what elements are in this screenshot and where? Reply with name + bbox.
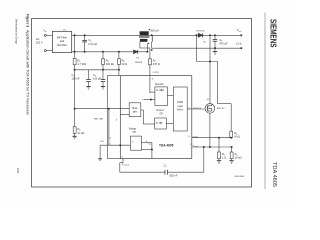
transformer primary winding 360uH — [140, 31, 149, 35]
resistor R1 startup 1.7M — [73, 35, 86, 66]
node after diode — [209, 35, 210, 36]
svg-text:plier: plier — [133, 110, 138, 113]
svg-text:Driver: Driver — [177, 108, 183, 111]
wire gate from pin5 — [187, 107, 205, 109]
wire feedback winding left stub — [140, 42, 150, 48]
AC 220V source label — [36, 37, 43, 45]
transformer feedback winding — [140, 39, 148, 42]
ground C3 — [86, 87, 90, 90]
svg-text:Application Circuit with TDA 4: Application Circuit with TDA 4605 for TV… — [25, 30, 29, 115]
wire diode to Vout — [203, 34, 241, 36]
resistor R4 270 to pin8 — [149, 48, 160, 93]
svg-text:Current: Current — [156, 109, 164, 112]
capacitor C9 470u — [213, 35, 228, 51]
transistor Q1 SIPMOS — [193, 99, 225, 113]
wire detector to pwm — [167, 95, 173, 97]
pwm logic driver block — [173, 87, 187, 131]
secondary winding coil — [151, 35, 153, 51]
wire feedback up to sense — [203, 147, 205, 172]
resistor R7 — [218, 152, 227, 161]
svg-text:100 µF: 100 µF — [93, 77, 102, 81]
svg-text:D: D — [156, 89, 158, 92]
svg-text:10 kΩ: 10 kΩ — [235, 156, 242, 160]
wire multiplier to current op — [141, 110, 155, 124]
svg-text:1.7 MΩ: 1.7 MΩ — [78, 62, 86, 66]
node rail B R6 — [118, 51, 119, 52]
svg-text:OP: OP — [133, 132, 137, 134]
svg-text:270 Ω: 270 Ω — [153, 62, 160, 66]
svg-text:AC: AC — [36, 37, 40, 41]
node Vcc R6 — [118, 69, 119, 70]
wire rail A secondary to output — [149, 34, 198, 36]
node rail B C5 — [84, 51, 85, 52]
output terminal sense — [236, 43, 242, 50]
node snubber branch — [196, 35, 197, 36]
right margin rule — [264, 13, 266, 190]
svg-text:UES 04605: UES 04605 — [234, 176, 244, 178]
wire rail A plus — [72, 34, 140, 36]
ground C9 — [213, 52, 217, 55]
wire snubber right leg — [218, 62, 232, 132]
svg-text:Vcontrol: Vcontrol — [122, 164, 130, 167]
node startup pin3 — [74, 108, 75, 109]
wire R7 stub — [218, 138, 220, 152]
svg-text:10 Ω: 10 Ω — [122, 62, 128, 66]
svg-text:9.97: 9.97 — [16, 168, 20, 174]
diode BYW52 — [197, 30, 207, 43]
svg-text:BYW 52: BYW 52 — [197, 30, 206, 32]
svg-text:TDA 4605: TDA 4605 — [159, 143, 174, 147]
feedback phase dot — [148, 43, 149, 44]
ground R9 — [229, 161, 233, 164]
resistor R6 10 — [118, 52, 128, 76]
svg-text:R8/1.7MΩ: R8/1.7MΩ — [94, 118, 104, 120]
ground R2 — [72, 136, 76, 139]
svg-text:PWM: PWM — [177, 102, 183, 104]
svg-text:0.22 µF: 0.22 µF — [88, 42, 97, 46]
capacitor C10 ground branch — [98, 145, 102, 160]
net label C10 — [100, 137, 111, 143]
wire input bottom — [46, 50, 52, 52]
svg-text:∞: ∞ — [132, 140, 134, 143]
wire into detector lower input — [142, 99, 155, 102]
svg-text:100 kΩ: 100 kΩ — [106, 62, 114, 66]
node isense R9 — [231, 146, 232, 147]
node C9 branch — [214, 35, 215, 36]
capacitor C2 feedback — [164, 163, 204, 177]
capacitor C4 100u — [93, 70, 105, 87]
wire rail B minus — [72, 51, 134, 53]
wire pin1 vertical — [100, 108, 130, 146]
node Vin label — [43, 28, 46, 33]
svg-text:Semiconductor Group: Semiconductor Group — [15, 19, 19, 44]
output terminal Vout — [237, 28, 242, 36]
wire voltage op output pin4 — [141, 141, 152, 159]
svg-text:220 V: 220 V — [36, 41, 43, 45]
svg-text:47 kΩ: 47 kΩ — [78, 131, 85, 135]
wire pin3 feed — [75, 109, 130, 115]
resistor R8 — [230, 131, 240, 139]
detector block — [155, 83, 168, 106]
svg-text:825 nF: 825 nF — [169, 173, 177, 177]
node Vcc C4 R5 — [102, 69, 103, 70]
svg-text:BUZ 90: BUZ 90 — [217, 108, 225, 110]
svg-text:Figure 3: Figure 3 — [25, 14, 29, 27]
wire R1 down to pin3 node — [74, 65, 76, 109]
wire source down — [209, 113, 211, 147]
wire input top — [46, 34, 52, 36]
svg-text:C 6751: C 6751 — [152, 72, 159, 74]
wire R9 stub — [231, 147, 233, 152]
resistor R9 — [230, 152, 241, 161]
voltage op block — [129, 128, 142, 151]
wire feedback bottom — [120, 171, 165, 173]
RF filter block — [52, 31, 71, 52]
schematic border frame — [32, 19, 252, 188]
svg-text:Multi-: Multi- — [132, 107, 138, 110]
multiplier block — [129, 103, 141, 117]
pin 2 stub and Vcontrol wire — [120, 156, 130, 172]
ground R7 — [217, 161, 221, 164]
primary phase dot — [149, 29, 150, 30]
svg-text:Vsense: Vsense — [193, 145, 199, 148]
wire isense — [190, 144, 232, 148]
node rail B R5 — [102, 51, 103, 52]
svg-text:and: and — [60, 39, 65, 43]
resistor R2 to ground — [73, 109, 84, 137]
svg-text:100 nF: 100 nF — [72, 77, 80, 81]
capacitor C3 100n — [72, 70, 91, 87]
current op block — [155, 109, 167, 129]
svg-text:Voltage: Voltage — [129, 128, 137, 131]
node rail A startup — [74, 35, 75, 36]
capacitor C5 smoothing — [82, 35, 97, 52]
svg-text:±1 %: ±1 % — [236, 43, 242, 46]
node rail B startup — [74, 51, 75, 52]
svg-text:Rectifier: Rectifier — [57, 43, 67, 47]
wire voltage op lower output — [141, 149, 152, 150]
svg-text:OP: OP — [160, 114, 164, 116]
svg-text:1 Ω: 1 Ω — [222, 156, 226, 160]
node drain top — [209, 61, 210, 62]
svg-text:SIEMENS: SIEMENS — [269, 19, 279, 48]
wire tonmax — [188, 135, 232, 139]
svg-text:VF: VF — [148, 144, 150, 147]
input terminal bottom — [44, 50, 46, 52]
wire Vcontrol vertical — [107, 76, 120, 159]
node Vcc branch — [74, 69, 75, 70]
svg-text:Logic: Logic — [177, 106, 183, 108]
wire secondary return — [152, 47, 241, 49]
diode D1 — [134, 50, 148, 64]
wire current op to pwm — [166, 123, 173, 125]
transformer core — [139, 37, 149, 38]
input terminal top — [44, 34, 46, 36]
svg-text:D: D — [156, 122, 158, 125]
svg-text:360 µH: 360 µH — [150, 28, 159, 32]
ground C4 — [101, 87, 105, 90]
resistor R5 100k — [102, 52, 115, 70]
node D1 winding — [147, 51, 148, 52]
svg-text:8 kΩ: 8 kΩ — [234, 135, 239, 139]
net label R8 1.7M pin3 — [94, 118, 118, 121]
svg-text:470 µF: 470 µF — [219, 42, 228, 46]
node rail A C5 — [84, 35, 85, 36]
wire snubber down — [196, 35, 217, 61]
wire drain — [209, 35, 211, 103]
wire feedback winding right stub — [146, 43, 148, 51]
op-amp IC TDA4605 outline — [120, 76, 192, 159]
svg-text:Detector: Detector — [155, 83, 164, 86]
svg-text:1N4148: 1N4148 — [135, 62, 143, 64]
svg-text:RF-Filter: RF-Filter — [57, 35, 67, 39]
wire Vcc branch — [75, 69, 119, 71]
svg-text:TDA 4605: TDA 4605 — [271, 162, 277, 187]
